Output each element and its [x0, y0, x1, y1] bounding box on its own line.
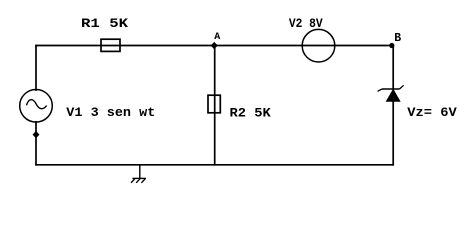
- junction dot on left branch below V1: [33, 131, 40, 138]
- svg-text:V1 3 sen wt: V1 3 sen wt: [66, 105, 155, 120]
- svg-text:V2 8V: V2 8V: [289, 16, 323, 31]
- wire left branch lower (V1 bottom to bottom rail): [35, 122, 37, 165]
- wire middle branch through R2 (node A to bottom rail): [214, 46, 216, 165]
- ground: [131, 165, 146, 183]
- node A (junction dot): [211, 32, 221, 49]
- resistor R2: [208, 95, 271, 120]
- svg-text:R2 5K: R2 5K: [230, 105, 272, 120]
- svg-text:R1 5K: R1 5K: [81, 16, 128, 31]
- wire bottom rail: [36, 164, 393, 166]
- wire left branch upper (top rail to V1 top): [35, 46, 37, 91]
- source V1 (AC source symbol): [20, 90, 156, 123]
- node B (junction dot): [389, 32, 401, 48]
- wire right branch through zener (node B to bottom rail): [392, 46, 394, 165]
- svg-text:A: A: [214, 32, 220, 43]
- zener diode Vz: [378, 85, 457, 120]
- wire top rail from V1 to node B: [36, 45, 393, 47]
- source V2 (circle symbol): [289, 16, 335, 62]
- svg-text:B: B: [394, 32, 401, 45]
- svg-text:Vz= 6V: Vz= 6V: [407, 105, 457, 120]
- resistor R1: [81, 16, 128, 51]
